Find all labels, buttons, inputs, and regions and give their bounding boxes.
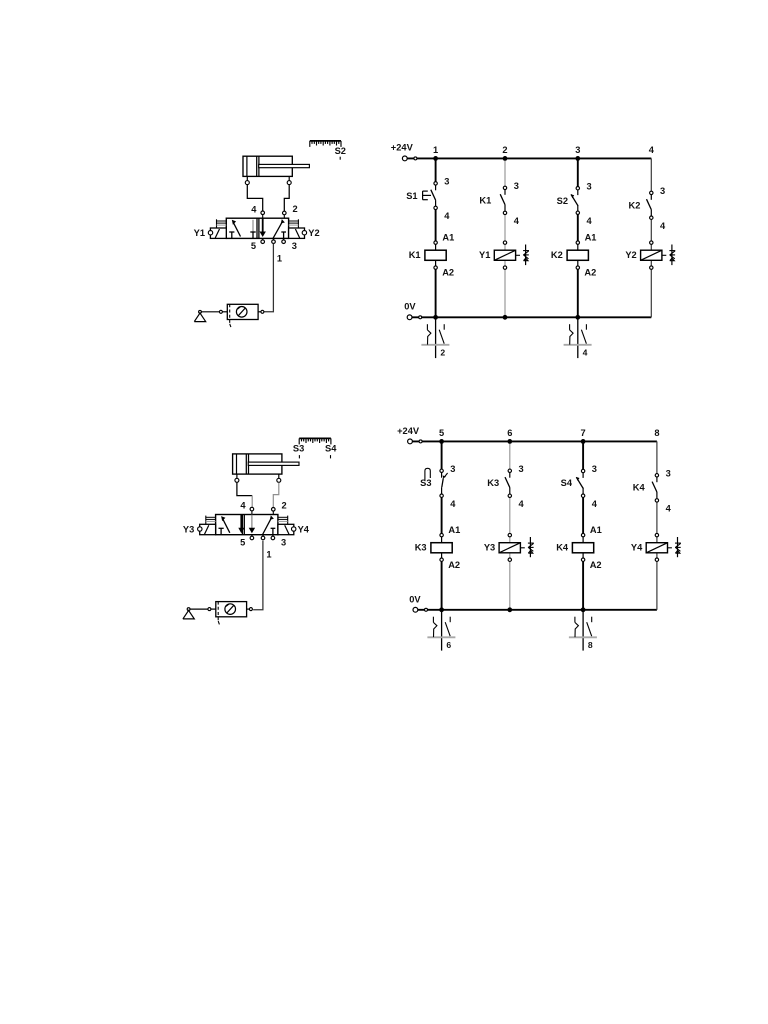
valve 2V left chamber flow path xyxy=(219,527,224,529)
switch contact K1 auxiliary contact xyxy=(504,190,506,195)
svg-text:3: 3 xyxy=(281,538,286,548)
svg-text:3: 3 xyxy=(450,464,455,474)
service unit ports (circuit 2) xyxy=(208,608,211,611)
air service unit (circuit 1) xyxy=(227,304,258,319)
compressed air supply source (circuit 2) xyxy=(187,608,190,611)
tubing cylinder right port to valve port 2 xyxy=(273,483,279,509)
rung 7 wire xyxy=(582,441,584,471)
junction node rung 2 bottom xyxy=(503,315,508,320)
svg-text:5: 5 xyxy=(240,538,245,548)
svg-text:K2: K2 xyxy=(551,250,563,260)
svg-text:+24V: +24V xyxy=(397,426,420,436)
rung 6 wire xyxy=(509,441,511,470)
svg-text:4: 4 xyxy=(583,348,588,358)
solenoid pilot Y2 (right) xyxy=(289,228,305,238)
junction node rung 5 bottom xyxy=(439,607,444,612)
svg-text:Y3: Y3 xyxy=(484,543,495,553)
svg-text:A2: A2 xyxy=(442,268,454,278)
svg-text:8: 8 xyxy=(588,640,593,650)
svg-text:0V: 0V xyxy=(409,595,421,605)
relay coil K2 xyxy=(577,244,579,250)
junction node rung 6 top xyxy=(507,439,512,444)
junction node rung 2 top xyxy=(503,156,508,161)
solenoid pilot Y1 (left) xyxy=(210,228,226,238)
svg-text:2: 2 xyxy=(440,348,445,358)
compressed air supply source (circuit 1) xyxy=(199,310,202,313)
svg-text:1: 1 xyxy=(277,253,282,263)
valve 1V right chamber flow path xyxy=(262,218,264,232)
svg-text:3: 3 xyxy=(575,145,580,155)
svg-text:1: 1 xyxy=(266,550,271,560)
+24V supply rail (ladder 2) xyxy=(412,440,657,442)
svg-text:1: 1 xyxy=(433,145,438,155)
switch contact K3 auxiliary contact xyxy=(509,472,511,477)
svg-text:A1: A1 xyxy=(585,232,597,242)
rung 3 wire xyxy=(577,158,579,188)
svg-text:A1: A1 xyxy=(448,525,460,535)
svg-text:S2: S2 xyxy=(557,196,568,206)
svg-text:5: 5 xyxy=(251,241,256,251)
svg-text:S1: S1 xyxy=(406,191,417,201)
junction node rung 3 bottom xyxy=(575,315,580,320)
rung 2 wire xyxy=(504,158,506,188)
svg-text:4: 4 xyxy=(251,204,257,214)
junction node rung 5 top xyxy=(439,439,444,444)
relay coil K3 xyxy=(441,537,443,543)
valve 1V port circles and numbers xyxy=(262,215,264,219)
junction node rung 7 bottom xyxy=(581,607,586,612)
tubing valve port 1 to service unit xyxy=(253,541,263,610)
+24V supply rail (ladder 1) xyxy=(407,157,651,159)
svg-text:K1: K1 xyxy=(479,195,491,205)
switch contact S3 xyxy=(441,472,443,477)
contact mirror of relay K2 xyxy=(577,317,579,358)
svg-text:3: 3 xyxy=(514,181,519,191)
position scale ruler xyxy=(310,140,341,142)
S3 detent actuator symbol xyxy=(425,468,430,480)
cylinder port stubs (2A (retracted)) xyxy=(236,474,238,478)
svg-text:3: 3 xyxy=(587,181,592,191)
switch contact K2 auxiliary contact xyxy=(650,195,652,200)
5/2-way double solenoid valve 2V body xyxy=(216,515,278,535)
svg-text:2: 2 xyxy=(282,501,287,511)
double-acting cylinder 1A (extended) xyxy=(243,156,292,176)
svg-text:7: 7 xyxy=(581,428,586,438)
svg-text:3: 3 xyxy=(444,177,449,187)
0V return rail (ladder 2) xyxy=(418,609,657,611)
svg-text:S3: S3 xyxy=(293,443,304,453)
tubing valve port 1 to service unit xyxy=(264,244,274,312)
5/2-way double solenoid valve 1V body xyxy=(226,218,288,238)
contact mirror of relay K3 xyxy=(441,610,443,651)
0V return rail (ladder 1) xyxy=(412,316,652,318)
svg-text:6: 6 xyxy=(507,428,512,438)
svg-text:A2: A2 xyxy=(584,268,596,278)
svg-text:Y4: Y4 xyxy=(298,525,310,535)
contact mirror of relay K1 xyxy=(435,317,437,358)
svg-text:4: 4 xyxy=(514,216,520,226)
solenoid pilot Y3 (left) xyxy=(200,524,216,534)
cylinder port stubs (1A (extended)) xyxy=(246,176,248,180)
svg-text:K1: K1 xyxy=(409,250,421,260)
svg-text:Y3: Y3 xyxy=(183,525,194,535)
svg-text:4: 4 xyxy=(660,221,666,231)
valve solenoid coil Y4 xyxy=(656,537,658,543)
svg-text:K4: K4 xyxy=(556,542,569,552)
svg-text:A2: A2 xyxy=(448,560,460,570)
svg-text:4: 4 xyxy=(444,211,450,221)
rung 5 wire xyxy=(441,441,443,470)
svg-text:3: 3 xyxy=(660,186,665,196)
valve solenoid coil Y3 xyxy=(509,537,511,543)
tubing cylinder right port to valve port 2 xyxy=(284,184,289,211)
switch contact S2 xyxy=(577,190,579,195)
junction node rung 7 top xyxy=(581,439,586,444)
svg-text:+24V: +24V xyxy=(391,143,414,153)
svg-text:Y4: Y4 xyxy=(631,543,643,553)
svg-text:Y2: Y2 xyxy=(308,228,319,238)
svg-text:3: 3 xyxy=(666,469,671,479)
service unit ports (circuit 1) xyxy=(219,310,222,313)
svg-text:4: 4 xyxy=(592,499,598,509)
piston rod (1A (extended)) xyxy=(259,164,310,167)
switch contact K4 auxiliary contact xyxy=(656,477,658,482)
svg-text:3: 3 xyxy=(519,464,524,474)
svg-text:A1: A1 xyxy=(590,525,602,535)
svg-text:4: 4 xyxy=(649,145,655,155)
svg-text:K3: K3 xyxy=(487,478,499,488)
piston rod (2A (retracted)) xyxy=(248,462,299,465)
svg-text:A2: A2 xyxy=(590,560,602,570)
svg-text:4: 4 xyxy=(519,499,525,509)
svg-text:S4: S4 xyxy=(561,478,573,488)
valve cross-reference symbol (Y3) xyxy=(521,547,525,549)
svg-text:K2: K2 xyxy=(629,200,641,210)
svg-text:Y1: Y1 xyxy=(479,250,490,260)
svg-text:4: 4 xyxy=(666,504,672,514)
svg-text:2: 2 xyxy=(502,145,507,155)
valve 2V right chamber flow path xyxy=(251,515,253,529)
svg-text:6: 6 xyxy=(446,640,451,650)
valve solenoid coil Y1 xyxy=(504,244,506,250)
svg-text:3: 3 xyxy=(592,464,597,474)
position scale ruler xyxy=(299,437,331,439)
svg-text:4: 4 xyxy=(587,216,593,226)
rung 1 wire xyxy=(435,158,437,183)
svg-text:A1: A1 xyxy=(442,232,454,242)
svg-text:4: 4 xyxy=(240,501,246,511)
svg-text:S2: S2 xyxy=(335,146,346,156)
rung 4 wire xyxy=(650,158,652,193)
double-acting cylinder 2A (retracted) xyxy=(233,454,282,474)
valve 2V port circles and numbers xyxy=(251,511,253,515)
svg-text:4: 4 xyxy=(450,499,456,509)
tubing cylinder left port to valve port 4 xyxy=(247,184,262,211)
relay coil K4 xyxy=(582,537,584,543)
svg-text:5: 5 xyxy=(439,428,444,438)
contact mirror of relay K4 xyxy=(582,610,584,651)
rung 8 wire xyxy=(656,441,658,475)
svg-text:S4: S4 xyxy=(325,443,337,453)
svg-text:S3: S3 xyxy=(420,478,431,488)
solenoid pilot Y4 (right) xyxy=(278,524,294,534)
svg-text:2: 2 xyxy=(293,204,298,214)
valve cross-reference symbol (Y2) xyxy=(662,254,666,256)
switch contact S4 xyxy=(582,473,584,478)
air service unit (circuit 2) xyxy=(216,602,247,617)
junction node rung 3 top xyxy=(575,156,580,161)
svg-text:0V: 0V xyxy=(404,302,416,312)
valve solenoid coil Y2 xyxy=(650,244,652,250)
valve cross-reference symbol (Y4) xyxy=(668,547,672,549)
junction node rung 1 bottom xyxy=(433,315,438,320)
junction node rung 1 top xyxy=(433,156,438,161)
svg-text:8: 8 xyxy=(654,428,659,438)
svg-text:K4: K4 xyxy=(633,483,646,493)
svg-text:Y2: Y2 xyxy=(625,250,636,260)
relay coil K1 xyxy=(435,244,437,250)
switch contact S1 xyxy=(435,185,437,190)
svg-text:K3: K3 xyxy=(415,542,427,552)
svg-text:Y1: Y1 xyxy=(194,228,205,238)
valve cross-reference symbol (Y1) xyxy=(516,254,520,256)
valve 1V left chamber flow path xyxy=(229,231,234,233)
svg-text:3: 3 xyxy=(292,241,297,251)
tubing cylinder left port to valve port 4 xyxy=(237,483,252,496)
junction node rung 6 bottom xyxy=(507,607,512,612)
